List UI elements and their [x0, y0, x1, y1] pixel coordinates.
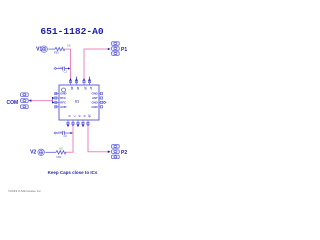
wire pink COM to U1	[31, 100, 52, 102]
net stub diamond C1	[54, 68, 57, 70]
svg-text:GND: GND	[60, 105, 66, 109]
svg-text:ANT: ANT	[92, 96, 98, 100]
svg-text:7: 7	[73, 115, 77, 117]
arrowhead into U1 left pin 3	[52, 101, 55, 103]
svg-text:FB1: FB1	[54, 51, 59, 55]
svg-text:RFC: RFC	[60, 100, 66, 104]
connector V2 symbol	[38, 149, 45, 156]
arrowhead C2 to net	[71, 132, 73, 134]
svg-text:18: 18	[84, 87, 88, 91]
U1 top pins	[69, 81, 90, 86]
svg-text:GND: GND	[91, 92, 97, 96]
svg-text:9: 9	[83, 115, 87, 117]
ferrite bead FB2 zigzag	[56, 151, 66, 154]
svg-text:600: 600	[67, 45, 72, 48]
svg-text:RFC: RFC	[60, 96, 66, 100]
arrowhead into U1 left pin 2	[52, 97, 55, 99]
IC U1 body	[59, 85, 99, 120]
svg-text:©2019 X-Microwave Inc: ©2019 X-Microwave Inc	[8, 189, 41, 193]
capacitor C1	[57, 67, 69, 71]
U1 pin1 circle	[62, 88, 66, 92]
node arrow P1 pin top	[83, 78, 85, 81]
net stub diamond C2	[54, 132, 57, 134]
net arrow above top pin 2	[75, 77, 77, 81]
connector V1 symbol	[41, 46, 48, 53]
net arrow above top pin 4	[88, 77, 90, 81]
connector P2	[112, 145, 120, 159]
net stub diamond U1 right pin 2	[102, 101, 104, 103]
arrowhead into COM	[29, 99, 32, 102]
wire V1 to FB1	[48, 48, 55, 50]
svg-text:GND: GND	[60, 92, 66, 96]
capacitor C2	[57, 131, 71, 135]
U1 bottom pins	[67, 120, 89, 125]
wire pink U1 pin to P2	[88, 125, 109, 152]
svg-text:20: 20	[70, 87, 74, 91]
svg-text:U1: U1	[75, 100, 79, 104]
ferrite bead FB1 zigzag	[55, 47, 65, 50]
svg-text:100pF: 100pF	[58, 131, 65, 133]
svg-text:6: 6	[68, 115, 72, 117]
connector COM	[21, 93, 29, 109]
svg-text:GND: GND	[91, 105, 97, 109]
svg-text:100pF: 100pF	[58, 67, 65, 69]
svg-text:COM: COM	[7, 100, 19, 106]
svg-text:V2: V2	[30, 150, 36, 156]
svg-text:P1: P1	[121, 47, 127, 53]
svg-text:8: 8	[78, 115, 82, 117]
svg-text:10: 10	[88, 114, 92, 118]
net arrow below bottom pin 2	[72, 125, 74, 128]
net arrow below bottom pin 3	[77, 125, 79, 128]
svg-text:FB2: FB2	[57, 155, 62, 159]
svg-text:P2: P2	[121, 150, 127, 156]
arrowhead into P1	[108, 48, 111, 51]
svg-text:C2: C2	[64, 134, 68, 138]
svg-text:600: 600	[59, 147, 64, 150]
wire V2 to FB2	[45, 151, 56, 153]
U1 top pin numbers	[70, 87, 93, 91]
node arrow V1 pin	[69, 78, 71, 81]
wire pink V1 net to U1 pin	[64, 49, 71, 80]
net arrow below bottom pin 1	[67, 125, 69, 128]
U1 right pins	[99, 93, 103, 108]
arrowhead into P2	[108, 150, 111, 153]
svg-text:C1: C1	[64, 69, 68, 73]
net arrow below bottom pin 4	[82, 125, 84, 128]
svg-text:17: 17	[89, 87, 93, 91]
wire pink U1 pin to P1	[84, 49, 109, 80]
wire tee at U1 left pins	[51, 98, 53, 102]
wire pink U1 pin to V2 net	[65, 125, 73, 153]
U1 left pins	[55, 93, 59, 108]
svg-text:GND: GND	[91, 100, 97, 104]
connector P1	[112, 42, 120, 56]
svg-text:Keep Caps close to ICs: Keep Caps close to ICs	[48, 170, 98, 175]
net arrow below bottom pin 5	[87, 125, 89, 128]
U1 bottom pin numbers	[68, 114, 92, 118]
svg-text:651-1182-A0: 651-1182-A0	[40, 26, 104, 37]
arrowhead C1 to net	[68, 67, 70, 69]
svg-text:19: 19	[76, 87, 80, 91]
